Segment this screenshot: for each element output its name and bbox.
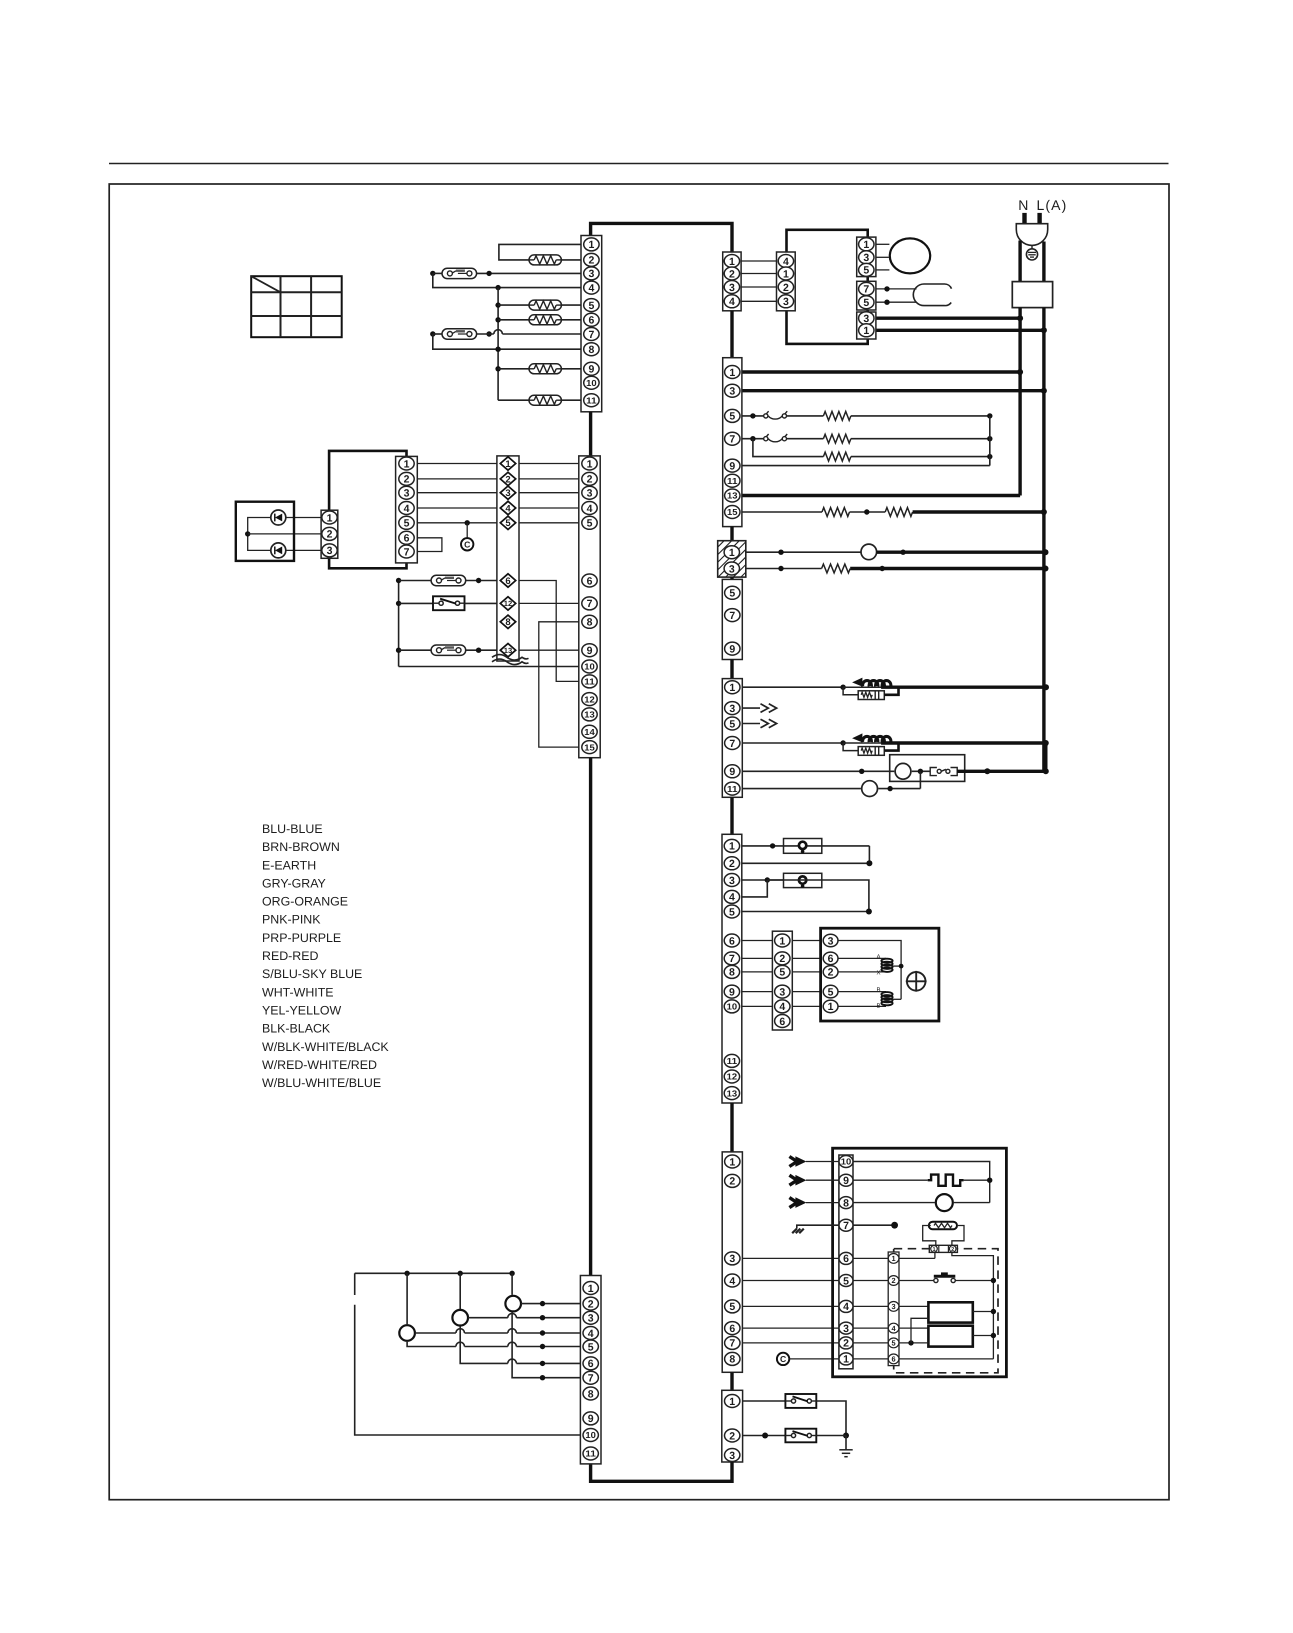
indicator lamp LP1 — [784, 839, 822, 854]
wire node to fuse F1 — [430, 271, 442, 276]
junction heater bus top — [495, 285, 500, 290]
svg-text:6: 6 — [892, 1355, 896, 1364]
wire C to timer pin1 — [789, 1358, 839, 1360]
arrow feed pin8 — [789, 1197, 806, 1208]
mains cord L upper — [1042, 242, 1045, 282]
svg-text:4: 4 — [729, 296, 735, 308]
wire module pin5b to latch — [876, 300, 917, 305]
LED D1 — [271, 510, 286, 525]
wire spine CN-I down — [730, 660, 733, 679]
indicator lamp LP2 — [784, 873, 822, 888]
wire motor left vertical lower — [355, 1305, 581, 1435]
wire spine hatched down — [730, 577, 733, 580]
wire sensor1 down — [934, 1252, 936, 1258]
wire R8 to node — [851, 454, 993, 459]
wire timer pin10 internal — [853, 1162, 990, 1203]
wire diamond 1 to CN-R — [519, 463, 579, 465]
svg-text:ORG-ORANGE: ORG-ORANGE — [262, 895, 348, 909]
svg-text:1: 1 — [729, 841, 735, 853]
timer heater element — [928, 1175, 964, 1186]
wire D1 to pin1 — [286, 517, 321, 519]
wire F2 to pin7 with hop — [477, 330, 581, 337]
start push button S4 — [934, 1272, 956, 1282]
svg-text:12: 12 — [504, 599, 512, 608]
wire relay2 to bus — [973, 1333, 996, 1338]
door latch heater — [913, 284, 951, 306]
wire jumper pin8 to pin15 — [539, 622, 579, 747]
wire motor to bus — [954, 1202, 990, 1204]
wire R7 to node — [851, 436, 993, 441]
wire R4 to pin9 — [561, 368, 581, 370]
wire R11 to mains L — [850, 566, 1048, 572]
svg-text:1: 1 — [404, 458, 410, 470]
junction bus pin8 — [495, 347, 500, 352]
wire winding A bottom to pin7 — [512, 1312, 580, 1380]
svg-text:9: 9 — [729, 986, 735, 998]
svg-text:1: 1 — [729, 367, 735, 379]
heater element R5 (pin11) — [529, 395, 561, 405]
wire R3 to pin6 — [561, 319, 581, 321]
wire ground to pin7 — [797, 1222, 898, 1229]
wire pin3 node — [742, 877, 784, 882]
svg-text:14: 14 — [584, 727, 595, 737]
junction bus switch — [396, 601, 433, 606]
svg-text:W/BLU-WHITE/BLUE: W/BLU-WHITE/BLUE — [262, 1076, 381, 1090]
wire valve pin5 internal — [838, 991, 886, 993]
wire heater pin1 loop — [499, 244, 581, 260]
svg-text:1: 1 — [892, 1254, 896, 1263]
LED D2 — [271, 543, 286, 558]
svg-text:11: 11 — [584, 677, 595, 687]
wire motor top bus — [355, 1271, 515, 1276]
wire timer pin9 lead — [853, 1179, 928, 1181]
svg-text:2: 2 — [588, 1298, 594, 1310]
wire pump out to mains L — [957, 768, 1046, 774]
wire coilA tap — [893, 964, 904, 969]
junction FL1 mains L — [1043, 684, 1049, 690]
svg-text:9: 9 — [587, 645, 593, 657]
svg-text:12: 12 — [727, 1072, 738, 1082]
wire S6 to ground node — [816, 1435, 846, 1437]
thermostat bell B1 — [861, 544, 877, 560]
svg-text:2: 2 — [892, 1276, 896, 1285]
wire fuse right leg — [952, 1226, 964, 1246]
svg-text:BLU-BLUE: BLU-BLUE — [262, 822, 323, 836]
connector CN-L (1,2,5,3,4,6) — [772, 931, 792, 1030]
svg-text:5: 5 — [892, 1339, 896, 1348]
svg-text:1: 1 — [729, 682, 735, 694]
wire winding B to pin3 with hop — [468, 1313, 580, 1320]
wire CN-L to valve unit — [792, 940, 822, 942]
wire R5 to pin11 — [561, 399, 581, 401]
wire CN-M pin3 to timer — [742, 1257, 839, 1259]
wire motor left vertical upper — [354, 1273, 356, 1295]
svg-text:8: 8 — [588, 344, 594, 356]
wire CN-Q pin5 to diamonds — [417, 522, 497, 524]
svg-text:2: 2 — [951, 1247, 954, 1253]
svg-text:4: 4 — [588, 282, 594, 294]
wire pin13 to mains N — [742, 494, 1020, 497]
wire lamp2 to pin5 — [742, 880, 872, 915]
motor winding C — [399, 1325, 415, 1341]
wire CN-M pin5 to timer — [742, 1305, 839, 1307]
svg-text:WHT-WHITE: WHT-WHITE — [262, 985, 334, 999]
svg-text:W/RED-WHITE/RED: W/RED-WHITE/RED — [262, 1058, 377, 1072]
wire R10 to mains L — [913, 509, 1047, 515]
wire F1 node down to pin4 line — [433, 273, 581, 287]
wire valve pin1 internal — [838, 1005, 886, 1007]
wire diamond 5 to CN-R — [519, 522, 579, 524]
svg-text:6: 6 — [505, 576, 510, 587]
valve earth target — [906, 971, 927, 992]
connector CN-F (3,1) — [857, 312, 876, 339]
wire main PCB top edge — [591, 223, 732, 252]
svg-text:2: 2 — [729, 1176, 735, 1188]
svg-text:BLK-BLACK: BLK-BLACK — [262, 1022, 331, 1036]
svg-text:7: 7 — [587, 598, 593, 610]
svg-text:4: 4 — [587, 503, 593, 515]
wire CN-B pin3 to module — [741, 286, 776, 288]
wire pin7 lead — [742, 742, 843, 744]
resistor R11 — [822, 564, 851, 573]
wire module pin1b to mains L — [876, 327, 1047, 333]
harness break wave — [492, 655, 529, 665]
svg-text:S/BLU-SKY BLUE: S/BLU-SKY BLUE — [262, 967, 362, 981]
resistor R10 — [885, 508, 912, 517]
connector CN-P (1,2,3) — [321, 510, 338, 558]
svg-text:3: 3 — [863, 252, 869, 264]
wire pin1 to mains N — [742, 369, 1023, 375]
svg-text:1: 1 — [843, 1354, 849, 1366]
svg-text:3: 3 — [729, 282, 735, 294]
svg-text:6: 6 — [729, 1323, 735, 1335]
svg-text:5: 5 — [828, 986, 834, 998]
wire pin9 lead — [742, 769, 894, 774]
sensor fuse — [929, 1222, 957, 1230]
selector board — [329, 451, 406, 568]
svg-text:YEL-YELLOW: YEL-YELLOW — [262, 1004, 341, 1018]
resistor R8 — [823, 452, 851, 461]
wire LED common — [245, 518, 271, 551]
svg-text:7: 7 — [729, 610, 735, 622]
svg-text:4: 4 — [729, 892, 735, 904]
svg-text:6: 6 — [587, 575, 593, 587]
svg-text:8: 8 — [588, 1388, 594, 1400]
svg-text:9: 9 — [588, 364, 594, 376]
wire module pin5 to motor — [876, 269, 890, 271]
svg-text:6: 6 — [843, 1253, 849, 1265]
wire valve pin6 internal — [838, 957, 886, 959]
wire jumper pins6-7 — [417, 538, 442, 552]
svg-text:9: 9 — [588, 1413, 594, 1425]
timer unit box — [833, 1148, 1007, 1377]
wire pin1 to door switch — [743, 1400, 786, 1402]
wire strip to CN-L — [742, 1005, 773, 1007]
wire lamp1 to pin2 — [742, 846, 873, 866]
svg-text:1: 1 — [828, 1001, 834, 1013]
wire element to bus — [964, 1178, 993, 1183]
svg-text:2: 2 — [587, 474, 593, 486]
wire drop to winding A — [511, 1273, 513, 1295]
wire winding C bottom to pin5 with hops — [407, 1342, 580, 1350]
svg-text:1: 1 — [863, 239, 869, 251]
wire S5 to ground node — [816, 1401, 849, 1439]
junction bus fuse2 — [396, 648, 431, 653]
wire relay1 to bus — [973, 1309, 996, 1314]
svg-text:6: 6 — [729, 935, 735, 947]
svg-text:2: 2 — [404, 474, 410, 486]
svg-text:3: 3 — [729, 703, 735, 715]
svg-text:6: 6 — [828, 953, 834, 965]
svg-text:7: 7 — [588, 1373, 594, 1385]
diagram outer frame — [109, 184, 1169, 1500]
wire hatched pin3 lead — [746, 566, 822, 571]
wire strip to CN-L — [742, 991, 773, 993]
svg-text:3: 3 — [404, 488, 410, 500]
thermal fuse F1 (pin3) — [442, 268, 477, 278]
svg-text:15: 15 — [727, 507, 738, 517]
svg-text:8: 8 — [729, 967, 735, 979]
svg-text:3: 3 — [783, 296, 789, 308]
wire bus to R3 — [495, 317, 529, 322]
connector CN-B (1-4) — [723, 252, 741, 311]
terminal strip CN-G (odd 1-15) — [723, 358, 742, 527]
wire module pin7 to latch — [876, 286, 917, 291]
wire CN-Q pin1 to diamonds — [417, 463, 497, 465]
svg-text:4: 4 — [843, 1301, 849, 1313]
wire capacitor up to pump node — [878, 771, 920, 791]
mains plug body — [1016, 224, 1047, 246]
connector CN-H hatched (1,3) — [688, 541, 785, 577]
svg-text:1: 1 — [729, 1156, 735, 1168]
svg-text:5: 5 — [729, 906, 735, 918]
wire heater common bus vertical — [497, 288, 499, 401]
wire spine CN-J down — [730, 797, 733, 834]
pressure switch S2 — [764, 434, 824, 442]
chassis ground symbol — [792, 1229, 804, 1234]
wire pin1 to lamp1 — [742, 843, 870, 848]
terminal strip CN-A heater (1-11) — [581, 236, 602, 412]
valve solenoid coil B — [877, 987, 893, 1010]
arrow reference pin3 — [761, 704, 777, 713]
wire pin1 lead — [742, 686, 843, 688]
lid switch S7 — [433, 596, 465, 610]
svg-text:3: 3 — [779, 986, 785, 998]
wire drop to winding C — [406, 1273, 408, 1324]
svg-text:7: 7 — [843, 1220, 849, 1232]
svg-text:7: 7 — [729, 738, 735, 750]
svg-text:RED-RED: RED-RED — [262, 949, 318, 963]
wire hatched pin1 to thermostat — [746, 550, 861, 555]
wire CN-Q pin3 to diamonds — [417, 492, 497, 494]
svg-text:8: 8 — [587, 617, 593, 629]
svg-text:3: 3 — [828, 935, 834, 947]
svg-text:5: 5 — [587, 518, 593, 530]
heater element R3 (pin6) — [529, 315, 561, 325]
relay RL1 — [928, 1302, 972, 1322]
svg-text:11: 11 — [586, 395, 597, 405]
resistor R6 — [823, 412, 851, 421]
wire sensor2 to bus — [952, 1252, 994, 1359]
wire CN-M pin7 to timer — [742, 1342, 839, 1344]
wire pin15 lead — [742, 511, 822, 513]
svg-text:1: 1 — [729, 256, 735, 268]
svg-text:1: 1 — [587, 458, 593, 470]
svg-text:6: 6 — [588, 315, 594, 327]
earth pigtail — [1031, 245, 1033, 249]
wire R6 to node — [851, 413, 993, 418]
svg-text:3: 3 — [505, 488, 510, 499]
motor winding A — [505, 1296, 521, 1312]
svg-text:5: 5 — [588, 1341, 594, 1353]
svg-text:12: 12 — [584, 694, 595, 704]
heater element R1 (pins1-2) — [529, 255, 561, 265]
door switch S5 — [785, 1394, 816, 1408]
wire diamond13 to CN-R pin9 — [519, 649, 579, 651]
plug prong N — [1022, 213, 1026, 225]
svg-text:9: 9 — [729, 460, 735, 472]
wire button to bus — [955, 1278, 996, 1283]
wire CN-L to valve unit — [792, 957, 822, 959]
svg-text:3: 3 — [729, 563, 735, 575]
wire timer pin1 to bus — [853, 1358, 993, 1360]
svg-text:5: 5 — [729, 411, 735, 423]
terminal strip CN-R (1-15) — [579, 456, 600, 758]
wire pin5 C branch — [465, 520, 470, 538]
LED display box — [236, 502, 294, 561]
wire R9-R10 node — [850, 509, 886, 514]
svg-text:7: 7 — [729, 1338, 735, 1350]
svg-text:10: 10 — [584, 662, 595, 672]
svg-text:3: 3 — [587, 488, 593, 500]
wire CN-Q pin4 to diamonds — [417, 507, 497, 509]
thermal fuse F4 — [431, 645, 466, 655]
relay module board — [787, 230, 868, 344]
mains wire L vertical — [1042, 308, 1045, 772]
timer connector (10-1) — [839, 1155, 853, 1369]
wire CN-B pin4 to module — [741, 300, 776, 302]
mains cord N upper — [1018, 241, 1021, 282]
wire strip to CN-L — [742, 957, 773, 959]
earth symbol — [1026, 249, 1037, 260]
wire strip to CN-L — [742, 940, 773, 942]
wire pin5 stub — [742, 723, 760, 725]
svg-text:2: 2 — [327, 529, 333, 541]
svg-text:7: 7 — [588, 329, 594, 341]
reference C circle — [777, 1353, 789, 1365]
svg-text:2: 2 — [729, 268, 735, 280]
svg-text:N: N — [1018, 197, 1029, 213]
svg-text:3: 3 — [892, 1302, 896, 1311]
wire pin3-pin4 tie — [742, 880, 768, 897]
pump capacitor circle — [862, 781, 878, 797]
resistor R7 — [823, 434, 851, 443]
svg-text:GRY-GRAY: GRY-GRAY — [262, 876, 326, 890]
wire module pin1 to motor — [876, 243, 890, 245]
earth ground symbol — [839, 1436, 852, 1457]
wire winding B bottom to pin6 with hop — [460, 1326, 580, 1366]
mains wire N vertical — [1018, 308, 1021, 496]
wire timer pin2 node — [853, 1340, 928, 1345]
connector CN-E (7,5) — [857, 281, 876, 310]
wire pin5 ntc branch — [742, 413, 764, 418]
wire F2 node down to pin8 line — [433, 334, 581, 349]
thermostat connector (1-6) — [888, 1252, 899, 1366]
wire timer pin6 to sensor — [853, 1257, 935, 1259]
wire diamond 4 to CN-R — [519, 507, 579, 509]
svg-text:C: C — [780, 1354, 786, 1364]
svg-text:4: 4 — [505, 503, 511, 514]
svg-text:7: 7 — [404, 546, 410, 558]
svg-text:4: 4 — [779, 1001, 785, 1013]
wire CN-Q pin2 to diamonds — [417, 478, 497, 480]
thermal fuse F3 — [431, 575, 466, 585]
terminal strip CN-K (1-13) — [722, 834, 742, 1103]
wire R1 to pin2 — [561, 259, 581, 261]
harness connector diamonds — [497, 456, 519, 661]
thermostat dashed enclosure — [894, 1249, 998, 1373]
arrow reference pin5 — [761, 719, 777, 728]
svg-text:5: 5 — [779, 967, 785, 979]
wire pin7 ntc branch — [742, 436, 764, 441]
svg-text:3: 3 — [729, 386, 735, 398]
wire diamond6 to CN-R pin11 — [519, 581, 579, 682]
wire pin2 to switch S6 — [743, 1433, 786, 1439]
svg-text:2: 2 — [783, 282, 789, 294]
connector CN-D (1,3,5) — [857, 237, 876, 277]
connector CN-Q (1-7) — [396, 456, 418, 563]
motor winding B — [452, 1310, 468, 1326]
svg-text:X: X — [877, 970, 881, 977]
svg-text:1: 1 — [505, 459, 511, 470]
svg-text:PNK-PINK: PNK-PINK — [262, 913, 321, 927]
wire S7 to diamond12 — [465, 602, 497, 604]
wire branch down to R8 — [753, 439, 824, 457]
wire module pin3b to mains N — [876, 315, 1023, 321]
wire bell to mains L — [877, 549, 1049, 555]
wire valve pin2 internal — [838, 971, 886, 973]
valve connector pins (3,6,2,5,1) — [823, 934, 838, 1013]
svg-text:1: 1 — [327, 512, 333, 524]
svg-text:5: 5 — [588, 300, 594, 312]
svg-text:1: 1 — [588, 239, 594, 251]
wire bus to R4 — [495, 366, 529, 371]
wire diamond 3 to CN-R — [519, 492, 579, 494]
wire spine CN-K down — [730, 1103, 733, 1152]
svg-text:3: 3 — [327, 545, 333, 557]
wire bus to CN-R pin10 — [399, 666, 579, 668]
wire diamond 2 to CN-R — [519, 478, 579, 480]
wire bus corner to R5 — [498, 399, 529, 401]
svg-text:6: 6 — [779, 1016, 785, 1028]
wire pin2 branch to relay1 — [911, 1318, 928, 1343]
wire CN-L to valve unit — [792, 991, 822, 993]
relay RL2 — [928, 1326, 972, 1347]
wire diamond12 to CN-R pin7 — [519, 602, 579, 604]
wire CN-M pin4 to timer — [742, 1280, 839, 1282]
wire timer pin4 to relay1 — [853, 1305, 928, 1307]
svg-text:1: 1 — [783, 268, 789, 280]
svg-text:6: 6 — [404, 533, 410, 545]
wire spine CN-A to CN-N — [589, 412, 592, 456]
wire CN-M pin6 to timer — [742, 1327, 839, 1329]
wire valve pin3 internal — [838, 941, 901, 1000]
wire module pin3 to motor — [876, 256, 889, 258]
svg-text:C: C — [464, 540, 470, 550]
wire colour legend — [262, 822, 389, 1090]
svg-text:2: 2 — [828, 967, 834, 979]
wire timer pin3 to relay2 — [853, 1327, 928, 1329]
